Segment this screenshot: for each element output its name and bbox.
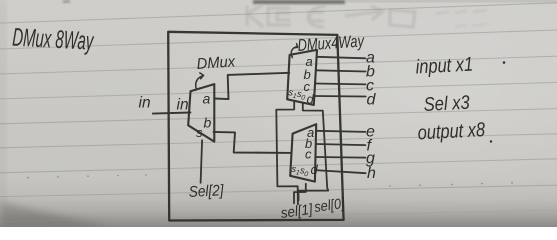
svg-text:a: a bbox=[203, 91, 211, 107]
wire: U2.c out bbox=[315, 83, 365, 86]
arrow from DMux label to U1 bbox=[196, 73, 204, 90]
svg-text:input x1: input x1 bbox=[415, 52, 473, 78]
wire: U3.sel to sel net bbox=[294, 184, 306, 203]
top edge dark streaks bbox=[63, 0, 557, 4]
wire: U3.d out (h) bbox=[315, 170, 366, 173]
svg-text:d: d bbox=[307, 92, 315, 107]
wire: U2.sel s1 to sel[1] bbox=[276, 101, 298, 204]
wire: U2.a out bbox=[317, 57, 366, 59]
annotation output x8 bbox=[417, 117, 486, 143]
wire: U1.sel down to Sel[2] bbox=[201, 140, 203, 183]
svg-text:DMux: DMux bbox=[196, 53, 236, 73]
net label sel[1] bbox=[280, 200, 315, 221]
wire: input in bbox=[153, 113, 191, 114]
svg-text:c: c bbox=[305, 147, 312, 162]
wire: U2.b out bbox=[316, 70, 366, 71]
DMux U1 (trapezoid) bbox=[188, 84, 214, 142]
bottom-left shadow wedge bbox=[0, 202, 110, 227]
wire: U1.a to U2.in bbox=[214, 73, 289, 99]
wire: U2.sel s0 to sel[0] bbox=[299, 103, 329, 201]
svg-text:in: in bbox=[177, 97, 189, 114]
label DMux4Way (U2) bbox=[297, 32, 366, 56]
label DMux (U1) bbox=[196, 53, 236, 73]
svg-text:d: d bbox=[311, 162, 319, 177]
svg-text:h: h bbox=[367, 165, 376, 182]
svg-text:output x8: output x8 bbox=[417, 117, 486, 143]
annotation dot bbox=[503, 61, 506, 64]
svg-text:d: d bbox=[367, 92, 377, 109]
ruled line dots bbox=[27, 174, 513, 187]
net label Sel[2] bbox=[188, 182, 225, 201]
annotation input x1 bbox=[415, 52, 473, 78]
DMux4Way U2 (top trapezoid) bbox=[287, 50, 317, 105]
chip boundary box DMux8Way bbox=[168, 32, 343, 221]
svg-text:s: s bbox=[196, 125, 203, 140]
wire: U1.b to U3.in bbox=[213, 132, 291, 153]
svg-text:Sel[2]: Sel[2] bbox=[188, 182, 225, 201]
arrow from DMux4Way label to U2 bbox=[291, 44, 297, 58]
wire: U3.c out (g) bbox=[315, 156, 365, 159]
svg-text:b: b bbox=[204, 115, 212, 131]
wire: U3.a out (e) bbox=[316, 131, 365, 132]
annotation Sel x3 bbox=[423, 91, 470, 115]
svg-text:in: in bbox=[139, 95, 151, 112]
ghost bleed-through marks bbox=[247, 5, 487, 27]
title DMux 8Way bbox=[12, 24, 95, 56]
DMux4Way U3 (bottom trapezoid) bbox=[290, 124, 316, 181]
annotation period bbox=[490, 140, 492, 142]
svg-text:Sel x3: Sel x3 bbox=[423, 91, 470, 115]
wire: U3.b out (f) bbox=[316, 144, 366, 145]
net label sel[0] bbox=[313, 195, 346, 215]
wire: U2.d out bbox=[315, 95, 366, 98]
svg-text:DMux 8Way: DMux 8Way bbox=[12, 24, 95, 56]
